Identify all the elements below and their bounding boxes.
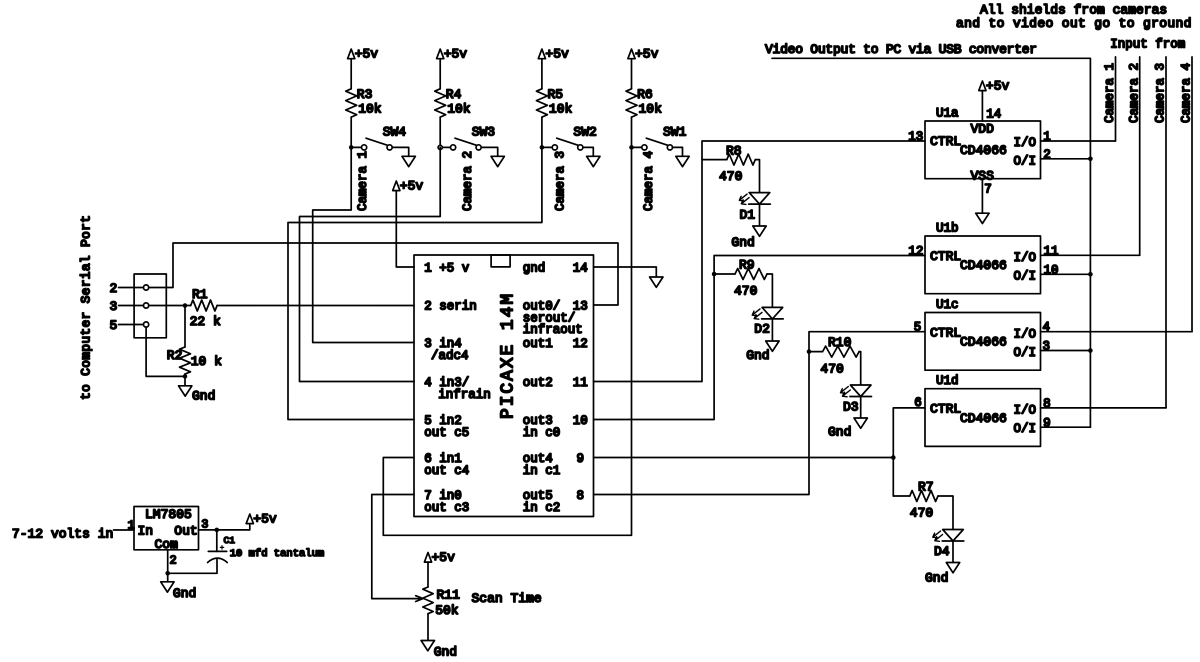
svg-text:U1c: U1c	[936, 298, 959, 312]
svg-text:470: 470	[734, 284, 757, 299]
svg-text:I/O: I/O	[1014, 328, 1037, 342]
svg-text:D1: D1	[740, 207, 756, 222]
svg-text:12: 12	[573, 337, 588, 351]
svg-text:Camera 2: Camera 2	[1127, 63, 1141, 123]
svg-text:470: 470	[719, 169, 742, 184]
svg-text:SW4: SW4	[383, 125, 407, 140]
svg-text:Video Output to PC via USB con: Video Output to PC via USB converter	[765, 42, 1037, 57]
svg-text:470: 470	[820, 361, 843, 376]
svg-text:Com: Com	[155, 537, 179, 552]
svg-text:Gnd: Gnd	[828, 424, 851, 439]
svg-text:SW2: SW2	[573, 125, 596, 140]
svg-text:R8: R8	[726, 143, 742, 158]
svg-text:Camera 4: Camera 4	[642, 151, 656, 211]
svg-text:R11: R11	[437, 588, 461, 603]
svg-text:14: 14	[573, 262, 588, 276]
svg-text:O/I: O/I	[1014, 346, 1037, 360]
svg-text:D2: D2	[754, 322, 770, 337]
svg-text:Gnd: Gnd	[173, 586, 196, 601]
svg-text:50k: 50k	[435, 603, 459, 618]
svg-text:2: 2	[110, 281, 118, 296]
svg-text:infrain: infrain	[438, 388, 491, 402]
svg-text:C1: C1	[224, 535, 236, 546]
svg-text:CTRL: CTRL	[930, 326, 961, 341]
svg-text:D3: D3	[843, 400, 859, 415]
svg-text:5: 5	[110, 318, 118, 333]
svg-text:VDD: VDD	[971, 121, 995, 136]
svg-text:10k: 10k	[447, 102, 471, 117]
svg-text:1 +5 v: 1 +5 v	[424, 262, 470, 276]
svg-text:Gnd: Gnd	[192, 389, 215, 404]
svg-text:CD4066: CD4066	[960, 258, 1007, 273]
svg-text:2: 2	[170, 554, 177, 568]
svg-text:in c0: in c0	[523, 426, 561, 440]
svg-text:9: 9	[1043, 416, 1051, 430]
svg-text:8: 8	[1043, 397, 1051, 411]
svg-text:3: 3	[110, 299, 118, 314]
svg-text:11: 11	[573, 376, 588, 390]
svg-text:470: 470	[910, 506, 933, 521]
svg-text:10k: 10k	[358, 102, 382, 117]
svg-text:PICAXE 14M: PICAXE 14M	[498, 292, 518, 419]
svg-text:R10: R10	[828, 335, 851, 350]
svg-text:10 k: 10 k	[191, 354, 222, 369]
svg-text:7: 7	[984, 183, 992, 197]
svg-text:12: 12	[908, 245, 923, 259]
svg-text:R7: R7	[918, 479, 934, 494]
svg-text:I/O: I/O	[1014, 404, 1037, 418]
svg-text:SW1: SW1	[663, 125, 687, 140]
svg-text:O/I: O/I	[1014, 154, 1037, 168]
svg-text:+5v: +5v	[355, 47, 379, 62]
svg-text:O/I: O/I	[1014, 269, 1037, 283]
svg-text:8: 8	[577, 489, 585, 503]
svg-text:R6: R6	[637, 87, 653, 102]
svg-text:Gnd: Gnd	[925, 570, 948, 585]
svg-text:Camera 1: Camera 1	[356, 151, 370, 211]
svg-text:7-12 volts in: 7-12 volts in	[12, 526, 113, 541]
svg-text:U1a: U1a	[936, 107, 959, 121]
svg-text:Scan Time: Scan Time	[472, 591, 542, 606]
svg-text:to Computer Serial Port: to Computer Serial Port	[79, 215, 94, 400]
svg-text:in c1: in c1	[523, 464, 561, 478]
svg-text:10k: 10k	[639, 102, 663, 117]
svg-text:U1b: U1b	[936, 222, 959, 236]
svg-text:R1: R1	[192, 287, 208, 302]
svg-text:SW3: SW3	[472, 125, 495, 140]
svg-text:+5v: +5v	[444, 47, 468, 62]
svg-text:out c5: out c5	[424, 426, 469, 440]
svg-text:13: 13	[908, 130, 923, 144]
svg-text:1: 1	[1043, 130, 1051, 144]
svg-text:CD4066: CD4066	[960, 335, 1007, 350]
svg-text:out1: out1	[523, 337, 553, 351]
svg-text:Gnd: Gnd	[434, 644, 457, 659]
svg-text:+5v: +5v	[635, 47, 659, 62]
svg-text:R3: R3	[357, 87, 373, 102]
svg-text:O/I: O/I	[1014, 422, 1037, 436]
svg-text:+5v: +5v	[545, 47, 569, 62]
svg-text:/adc4: /adc4	[431, 349, 469, 363]
svg-text:out c3: out c3	[424, 501, 469, 515]
svg-text:2 serin: 2 serin	[424, 300, 477, 314]
svg-text:+5v: +5v	[400, 179, 424, 194]
svg-text:I/O: I/O	[1014, 251, 1037, 265]
svg-text:9: 9	[577, 452, 585, 466]
svg-text:Gnd: Gnd	[731, 235, 754, 250]
svg-text:CTRL: CTRL	[930, 134, 961, 149]
svg-text:I/O: I/O	[1014, 136, 1037, 150]
svg-text:Camera 2: Camera 2	[461, 151, 475, 211]
svg-text:LM7805: LM7805	[145, 507, 192, 522]
svg-text:Camera 3: Camera 3	[1154, 63, 1168, 123]
svg-text:Camera 4: Camera 4	[1180, 63, 1194, 123]
svg-text:2: 2	[1043, 148, 1051, 162]
svg-text:R2: R2	[167, 348, 183, 363]
svg-text:R9: R9	[739, 257, 755, 272]
svg-text:22 k: 22 k	[190, 314, 221, 329]
svg-text:and to video out go to ground: and to video out go to ground	[956, 16, 1192, 31]
svg-text:gnd: gnd	[523, 262, 546, 276]
svg-text:6: 6	[914, 396, 922, 410]
svg-text:out2: out2	[523, 376, 553, 390]
svg-text:11: 11	[1044, 245, 1059, 259]
svg-text:1: 1	[128, 519, 135, 533]
svg-text:Input from: Input from	[1110, 37, 1185, 51]
svg-text:In: In	[138, 524, 154, 539]
svg-text:out c4: out c4	[424, 464, 469, 478]
svg-text:Camera 1: Camera 1	[1103, 63, 1117, 123]
svg-text:10: 10	[573, 414, 588, 428]
svg-text:10 mfd tantalum: 10 mfd tantalum	[230, 548, 325, 560]
svg-text:D4: D4	[934, 544, 950, 559]
svg-text:+5v: +5v	[432, 550, 456, 565]
svg-text:CTRL: CTRL	[930, 249, 961, 264]
svg-text:4: 4	[1043, 321, 1051, 335]
svg-text:+5v: +5v	[986, 79, 1010, 94]
svg-text:CD4066: CD4066	[960, 411, 1007, 426]
svg-text:5: 5	[914, 321, 922, 335]
svg-text:Gnd: Gnd	[746, 348, 769, 363]
svg-text:10k: 10k	[549, 102, 573, 117]
svg-text:CTRL: CTRL	[930, 402, 961, 417]
svg-text:R5: R5	[548, 87, 564, 102]
svg-text:10: 10	[1044, 264, 1059, 278]
svg-text:CD4066: CD4066	[960, 143, 1007, 158]
svg-text:infraout: infraout	[523, 323, 583, 337]
svg-text:14: 14	[986, 108, 1001, 122]
svg-text:+5v: +5v	[253, 512, 277, 527]
svg-text:R4: R4	[446, 87, 462, 102]
svg-text:in c2: in c2	[523, 501, 561, 515]
svg-text:3: 3	[1043, 340, 1051, 354]
svg-text:U1d: U1d	[936, 374, 959, 388]
svg-text:Camera 3: Camera 3	[553, 151, 567, 211]
